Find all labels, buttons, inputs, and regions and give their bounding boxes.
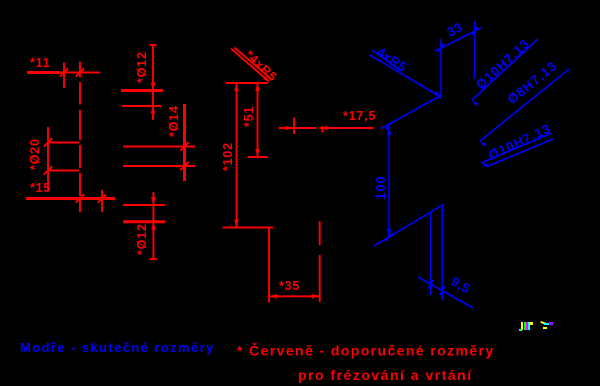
- dim 9,5 extension 1: [430, 211, 432, 295]
- leader *4xR5 line b: [235, 48, 271, 79]
- dim *11 tick 2: [76, 68, 84, 76]
- dim *15 extension line: [101, 190, 103, 212]
- hole label 3 leader: [481, 133, 552, 163]
- ucs icon 2: [540, 321, 553, 329]
- dim 9,5 tick 1: [428, 280, 433, 289]
- hole label 3 underline 2: [487, 139, 553, 167]
- blue leader 4xR5 underline: [372, 50, 401, 71]
- dim 9,5 tick 2: [440, 287, 445, 296]
- dim *Ø12 bottom arrow up: [151, 222, 156, 230]
- dim *Ø12 bottom line: [152, 192, 154, 260]
- svg-text:*11: *11: [30, 56, 50, 70]
- dim *51 bottom tick line: [248, 156, 268, 158]
- dim 100 crossing tick bottom: [386, 233, 393, 241]
- dim *35 arrow left: [269, 294, 277, 299]
- svg-text:*15: *15: [30, 181, 51, 195]
- blue leader 4xR5 line: [369, 55, 439, 97]
- svg-text:* Červeně - doporučené rozměry: * Červeně - doporučené rozměry: [237, 342, 495, 359]
- dim *17,5 line: [279, 127, 374, 129]
- svg-text:Modře - skutečné rozměry: Modře - skutečné rozměry: [20, 340, 215, 355]
- hole label 2 leader: [480, 69, 569, 141]
- svg-text:*17,5: *17,5: [343, 109, 376, 123]
- upper edge of Ø12 hole thick: [121, 89, 163, 92]
- dim *51 line: [257, 83, 259, 157]
- centerline right middle: [319, 221, 321, 302]
- dim 100 top extension: [381, 96, 441, 129]
- dim *102 arrow top: [234, 83, 239, 91]
- dim *17,5 arrow 1: [286, 126, 294, 131]
- svg-text:*Ø14: *Ø14: [167, 105, 181, 137]
- ucs icon 1: [519, 322, 533, 331]
- dim *17,5 right tick: [322, 126, 324, 133]
- dim *Ø20 tick 2: [44, 166, 52, 174]
- dim *Ø20 tick 1: [44, 138, 52, 146]
- dim 100 line: [388, 127, 390, 237]
- dim *35 arrow right: [312, 294, 320, 299]
- lower edge of Ø12 hole: [122, 105, 161, 107]
- dim *Ø12 arrow down: [151, 83, 156, 91]
- dim 33 left extension: [440, 39, 442, 100]
- hole label 1 leader: [472, 39, 538, 100]
- dim *Ø14 tick 2: [180, 162, 188, 170]
- svg-text:*51: *51: [242, 106, 256, 127]
- dim *11 line thick part: [27, 71, 59, 74]
- dim *Ø14 tick 1: [180, 142, 188, 150]
- dim 9,5 extension 2: [441, 205, 443, 300]
- lower edge of lower Ø12 hole thick: [123, 220, 165, 223]
- dim *51 arrow top: [255, 83, 260, 91]
- blue leader 4xR5 arrowhead: [434, 91, 441, 96]
- dim 100 arrow top: [387, 127, 392, 135]
- svg-text:pro frézování a vrtání: pro frézování a vrtání: [298, 367, 473, 383]
- upper edge of Ø20 bore: [48, 142, 79, 144]
- dim 100 bottom extension: [374, 204, 444, 246]
- centerline left view: [79, 62, 81, 212]
- hole label 2 arrowhead: [480, 141, 487, 147]
- dim *Ø12 top line: [152, 44, 154, 120]
- dim *102 arrow bottom: [234, 220, 239, 228]
- lower edge of Ø20 bore: [48, 170, 79, 172]
- dim *11 tick 1: [60, 68, 68, 76]
- dim 9,5 line: [418, 277, 473, 308]
- dim *Ø14 line thick: [183, 104, 186, 181]
- dim *Ø12 arrow up: [151, 106, 156, 114]
- hole label 3 arrowhead: [481, 163, 488, 168]
- leader *4xR5 line a: [231, 49, 269, 82]
- leader *4xR5 arrowhead: [263, 76, 269, 82]
- dim 33 right extension: [474, 21, 476, 79]
- dim *11 extension line: [63, 63, 65, 88]
- svg-text:*102: *102: [221, 142, 235, 171]
- dim *17,5 extension tick: [293, 118, 295, 135]
- lower edge of Ø14 hole: [123, 165, 195, 167]
- dim *51 arrow bottom: [255, 149, 260, 157]
- dim *35 line: [269, 295, 320, 297]
- upper edge of lower Ø12 hole: [123, 204, 165, 206]
- dim 33 line: [435, 28, 481, 51]
- hole label 1 arrowhead: [472, 100, 478, 106]
- dim 100 crossing tick top: [386, 122, 393, 130]
- dim 33 tick 2: [472, 27, 477, 36]
- svg-text:*Ø20: *Ø20: [28, 138, 42, 170]
- base line thick: [26, 197, 115, 200]
- svg-text:*Ø12: *Ø12: [135, 223, 149, 255]
- dim *Ø12 top end tick: [150, 44, 157, 46]
- svg-text:*Ø12: *Ø12: [135, 51, 149, 83]
- dim *17,5 arrow 2: [320, 126, 328, 131]
- dim 33 tick 1: [439, 44, 444, 53]
- dim *Ø20 line: [47, 127, 49, 191]
- bottom edge middle view: [223, 227, 274, 229]
- svg-text:*35: *35: [279, 279, 300, 293]
- dim *15 tick 2: [98, 194, 106, 202]
- upper edge of Ø14 hole: [123, 146, 195, 148]
- dim *102 line: [236, 83, 238, 228]
- dim *15 tick 1: [76, 194, 84, 202]
- dim *11 line: [27, 72, 100, 74]
- svg-text:100: 100: [373, 175, 388, 200]
- dim 100 arrow bottom: [387, 229, 392, 237]
- dim *35 left extension: [268, 228, 270, 303]
- dim *Ø12 bottom arrow down: [151, 197, 156, 205]
- dim *Ø12 bottom end tick: [150, 258, 157, 260]
- top edge middle view: [226, 82, 268, 84]
